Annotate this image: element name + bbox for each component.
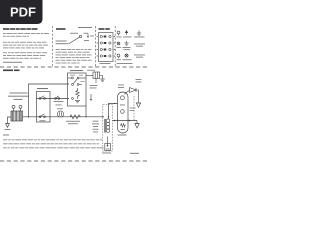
PDF badge (0, 0, 43, 24)
intro paragraph 1 (3, 33, 49, 37)
charge box inner labels (70, 75, 85, 82)
resistor R2 (76, 88, 79, 99)
wire charge box to C1 (86, 75, 93, 77)
switch box (37, 92, 51, 123)
junction J1 (85, 116, 86, 117)
chart caption (56, 41, 69, 45)
wafer diagram labels (70, 33, 94, 41)
socket pins (100, 35, 111, 57)
legend row 3 label a (117, 58, 122, 61)
legend row 1 label a (117, 36, 122, 39)
note line 3 (3, 147, 105, 148)
ground G5 (135, 124, 139, 129)
ground G1 (6, 124, 10, 128)
dashed shield box (103, 105, 113, 152)
notes heading (3, 135, 9, 136)
column separator dashed 3 (114, 26, 116, 67)
wire W1 riser to tube grid (109, 104, 118, 117)
legend row 1 label b (123, 36, 132, 39)
capacitor C1 label (87, 69, 95, 72)
lamp L1 (57, 111, 63, 117)
legend row 3 symbol b circuit breaker (125, 54, 128, 57)
ground G1 label (5, 128, 11, 131)
capacitor C1 block (93, 72, 100, 79)
tube V1 label (118, 135, 127, 136)
coil terminal P2 (19, 105, 22, 111)
wire speaker to ground (136, 90, 139, 103)
socket bottom caption (100, 62, 111, 65)
dashed feedback line (133, 96, 135, 121)
tube pin ticks (118, 119, 129, 121)
resistor R1 (70, 115, 81, 119)
page background (0, 0, 149, 198)
tube V1 heater coil (121, 124, 126, 128)
socket pin letters (97, 36, 115, 57)
legend footer note (117, 62, 133, 65)
wire tube top to speaker (124, 90, 129, 94)
label CHG AMP (118, 85, 124, 88)
chart paragraph (56, 49, 92, 64)
switch S5 contact (72, 98, 74, 100)
legend row 1 symbol b (125, 31, 127, 36)
wire W4 output (113, 120, 138, 122)
label PRE AUD (136, 79, 142, 82)
transformer T2 windings (105, 117, 110, 133)
arrow A1 (90, 94, 92, 101)
rotary switch S4 (68, 77, 87, 85)
wire C1 to ground (100, 76, 103, 80)
switch box label (37, 88, 48, 89)
column separator dashed 1 (52, 26, 54, 67)
legend row 1 symbol c (137, 31, 141, 36)
charge box (68, 73, 87, 106)
bottom tear line (0, 160, 149, 162)
wire W1 main bus (23, 116, 104, 118)
junction J5 (102, 116, 103, 117)
switch S2 (55, 96, 60, 100)
tube socket box (99, 33, 114, 62)
wafer diagram node (69, 34, 89, 45)
legend row 2 symbol b (124, 41, 128, 45)
section separator dashed (0, 66, 149, 68)
tube V1 envelope (118, 92, 129, 133)
arrow A2 into pot (107, 137, 109, 148)
junction J4 (114, 103, 115, 104)
charge box right edge drop wire (85, 106, 87, 117)
wire T1 to ground (8, 117, 12, 124)
tube V1 cathode bar (121, 129, 126, 131)
potentiometer label (102, 152, 111, 155)
svg-text:PDF: PDF (10, 5, 36, 20)
socket center contacts (104, 36, 107, 58)
tube V1 anode circle (121, 110, 125, 114)
resistor R1 label (66, 121, 80, 124)
legend row 3 text c (134, 55, 145, 58)
node label B+ (130, 108, 136, 111)
legend row 2 label b (123, 47, 131, 50)
junction J7 (108, 116, 109, 117)
wire W3 feeder (29, 84, 70, 117)
wire W4 to ground (136, 121, 138, 124)
lamp L1 label (57, 107, 63, 110)
test pins heading (99, 28, 110, 30)
junction J2 (114, 120, 115, 121)
coil terminal P1 (12, 105, 15, 111)
wire W3b switch line (37, 98, 70, 100)
transformer T1 winding (11, 111, 23, 121)
ground G4 (136, 103, 140, 108)
chart heading (56, 28, 66, 30)
legend row 2 symbol a (117, 42, 120, 45)
column separator dashed 2 (95, 26, 97, 67)
tube V1 inner label (120, 104, 125, 107)
footnote line (3, 62, 22, 63)
switch S2 label (54, 101, 64, 105)
junction J6 (28, 116, 29, 117)
charge box label (70, 70, 83, 71)
note line 1 (3, 139, 102, 140)
page number (130, 153, 139, 154)
intro paragraph 2 (3, 42, 48, 49)
legend row 1 label c (134, 36, 145, 39)
switch S3 label (40, 119, 46, 122)
wafer label (78, 27, 92, 28)
node label ST LINE (90, 85, 98, 88)
capacitor C1 stub (95, 79, 97, 84)
speaker SP1 (130, 88, 137, 93)
tube V1 plate circle (120, 96, 124, 100)
legend row 2 text c (134, 44, 145, 47)
junction J3 (129, 120, 130, 121)
ground G2 (75, 101, 80, 103)
ground G3 (100, 79, 105, 81)
potentiometer box (105, 144, 111, 151)
intro paragraph 3 (3, 52, 47, 59)
note line 2 (3, 143, 99, 144)
legend row 3 symbol a (117, 54, 120, 58)
document title (3, 28, 38, 30)
legend row 1 symbol a (117, 31, 120, 35)
chassis note (92, 121, 99, 133)
legend row 2 label a (117, 46, 122, 49)
legend row 3 label b (123, 58, 132, 61)
switch S1 (39, 96, 45, 100)
construction heading (3, 70, 20, 72)
antenna label block (8, 93, 29, 100)
switch S3 cap (39, 114, 45, 118)
